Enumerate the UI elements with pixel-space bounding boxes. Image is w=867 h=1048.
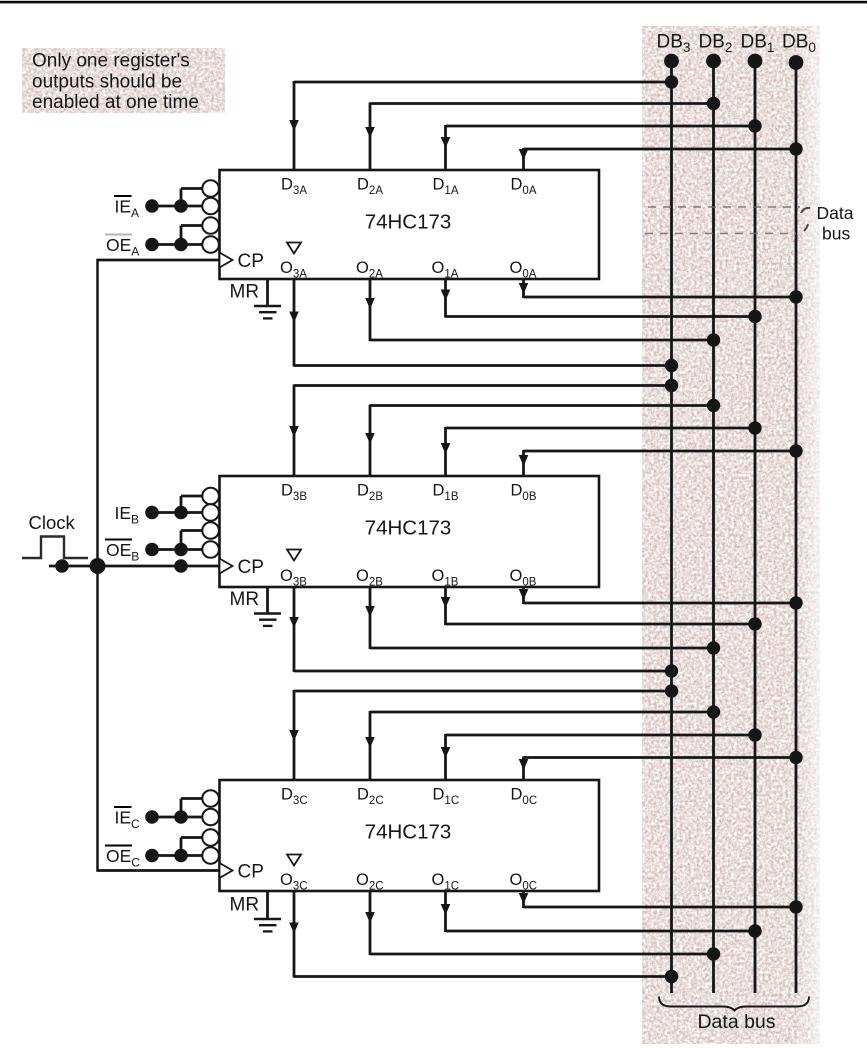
wire: O3C output to bus DB3 (with junction dot and arrow) <box>289 891 678 983</box>
wire: bus DB3 to D3B input (with junction dot and arrow) <box>289 379 678 476</box>
dashed pointer hooks <box>801 208 810 213</box>
3-state output symbol (open triangle) B <box>287 550 301 561</box>
svg-text:Clock: Clock <box>29 512 76 533</box>
register UA: 74HC173 box <box>220 170 600 279</box>
bus line DB2 (vertical) <box>706 54 721 993</box>
net label OEA (output enable) <box>105 235 139 259</box>
dashed pointer lines to Data bus label <box>648 206 800 208</box>
shaded data-bus band <box>642 26 834 1044</box>
wire IEC to bubbles (with junction dots) <box>145 799 202 824</box>
net label IEC (input enable) <box>114 807 140 831</box>
net label OEC (output enable) <box>105 846 140 870</box>
pin label CP (B) with clock edge triangle <box>220 557 264 578</box>
bus line DB1 (vertical) <box>748 54 763 993</box>
inverting input bubbles OEB <box>202 522 219 558</box>
bus line DB3 (vertical) <box>664 54 679 993</box>
inverting input bubbles IEB <box>202 488 219 521</box>
wire: bus DB3 to D3A input (with junction dot and arrow) <box>289 75 678 170</box>
wire: O1B output to bus DB1 (with junction dot and arrow) <box>441 587 762 631</box>
svg-text:MR: MR <box>230 282 260 303</box>
wire: bus DB0 to D0B input (with junction dot and arrow) <box>519 444 803 476</box>
wire: O2C output to bus DB2 (with junction dot and arrow) <box>365 891 720 961</box>
svg-text:74HC173: 74HC173 <box>365 821 452 844</box>
3-state output symbol (open triangle) C <box>287 855 301 866</box>
svg-text:Data bus: Data bus <box>697 1011 775 1033</box>
ground symbol (B) <box>254 614 281 626</box>
pin MR with label (B) <box>230 587 268 614</box>
svg-text:CP: CP <box>238 251 264 272</box>
pin MR with label (C) <box>230 891 268 919</box>
wire: O3B output to bus DB3 (with junction dot and arrow) <box>289 587 678 678</box>
wire: O0A output to bus DB0 (with junction dot and arrow) <box>519 279 803 304</box>
wire OEC to bubbles (with junction dots) <box>145 838 202 863</box>
pin MR with label (A) <box>230 279 268 306</box>
svg-text:MR: MR <box>230 589 260 610</box>
pin label CP (A) with clock edge triangle <box>220 251 264 272</box>
note box: Only one register's outputs should be enabled at one time <box>22 48 225 113</box>
bus line DB0 (vertical) <box>789 55 804 993</box>
3-state output symbol (open triangle) A <box>287 243 301 254</box>
inverting input bubbles OEC <box>202 829 219 864</box>
brace under data bus <box>659 997 809 1011</box>
svg-text:Data: Data <box>817 203 854 223</box>
net label OEB (output enable) <box>105 540 139 564</box>
wire: O2A output to bus DB2 (with junction dot and arrow) <box>365 279 720 347</box>
svg-text:outputs should be: outputs should be <box>32 72 182 93</box>
wire IEB to bubbles (with junction dots) <box>145 496 202 519</box>
wire: O1C output to bus DB1 (with junction dot and arrow) <box>441 891 762 938</box>
clock pulse waveform <box>22 537 88 559</box>
wire OEA to bubbles (with junction dots) <box>145 226 202 252</box>
ground symbol (A) <box>254 306 281 318</box>
wire OEB to bubbles (with junction dots) <box>145 531 202 557</box>
svg-text:Only one register's: Only one register's <box>32 51 190 72</box>
clock rail (vertical wire) <box>96 259 99 872</box>
svg-text:bus: bus <box>822 224 850 244</box>
wire: O0C output to bus DB0 (with junction dot and arrow) <box>519 891 803 914</box>
ground symbol (C) <box>254 919 281 931</box>
register UC: 74HC173 box <box>220 780 600 891</box>
wire: O3A output to bus DB3 (with junction dot and arrow) <box>289 279 678 372</box>
wire IEA to bubbles (with junction dots) <box>145 189 202 213</box>
page top border rule <box>0 1 867 4</box>
wire: bus DB0 to D0C input (with junction dot and arrow) <box>519 751 803 780</box>
inverting input bubbles IEC <box>202 790 219 825</box>
svg-text:MR: MR <box>230 895 260 916</box>
svg-text:OEB: OEB <box>106 540 139 564</box>
pin label CP (C) with clock edge triangle <box>220 862 264 883</box>
svg-text:IEB: IEB <box>115 503 140 527</box>
wire: bus DB1 to D1A input (with junction dot and arrow) <box>441 119 762 170</box>
inverting input bubbles IEA <box>202 180 219 214</box>
wire: bus DB0 to D0A input (with junction dot and arrow) <box>519 142 803 170</box>
svg-text:74HC173: 74HC173 <box>365 517 452 540</box>
svg-text:OEC: OEC <box>106 846 140 870</box>
wire: bus DB2 to D2A input (with junction dot and arrow) <box>365 97 720 170</box>
svg-text:OEA: OEA <box>106 235 139 259</box>
wire: O0B output to bus DB0 (with junction dot and arrow) <box>519 587 803 610</box>
wire: bus DB3 to D3C input (with junction dot and arrow) <box>289 684 678 780</box>
svg-text:IEA: IEA <box>115 197 140 221</box>
wire: bus DB2 to D2B input (with junction dot and arrow) <box>365 399 720 476</box>
svg-text:enabled at one time: enabled at one time <box>32 92 199 113</box>
wire: clock rail to CP of register A <box>98 259 220 262</box>
wire: bus DB2 to D2C input (with junction dot and arrow) <box>365 705 720 780</box>
wire: bus DB1 to D1B input (with junction dot and arrow) <box>441 421 762 476</box>
wire: O1A output to bus DB1 (with junction dot and arrow) <box>441 279 762 323</box>
svg-text:74HC173: 74HC173 <box>365 211 452 234</box>
wire: O2B output to bus DB2 (with junction dot and arrow) <box>365 587 720 655</box>
svg-text:CP: CP <box>238 862 264 883</box>
inverting input bubbles OEA <box>202 217 219 253</box>
wire: bus DB1 to D1C input (with junction dot and arrow) <box>441 728 762 780</box>
wire: clock rail to CP of register C <box>98 869 220 872</box>
net label IEB (input enable) <box>115 503 140 527</box>
label: Data bus (right side) <box>817 203 854 244</box>
net label IEA (input enable) <box>114 196 139 220</box>
register UB: 74HC173 box <box>220 476 600 587</box>
svg-text:CP: CP <box>238 557 264 578</box>
wire: clock input to CP of register B (junction dots) <box>49 558 220 574</box>
svg-text:IEC: IEC <box>115 808 141 832</box>
